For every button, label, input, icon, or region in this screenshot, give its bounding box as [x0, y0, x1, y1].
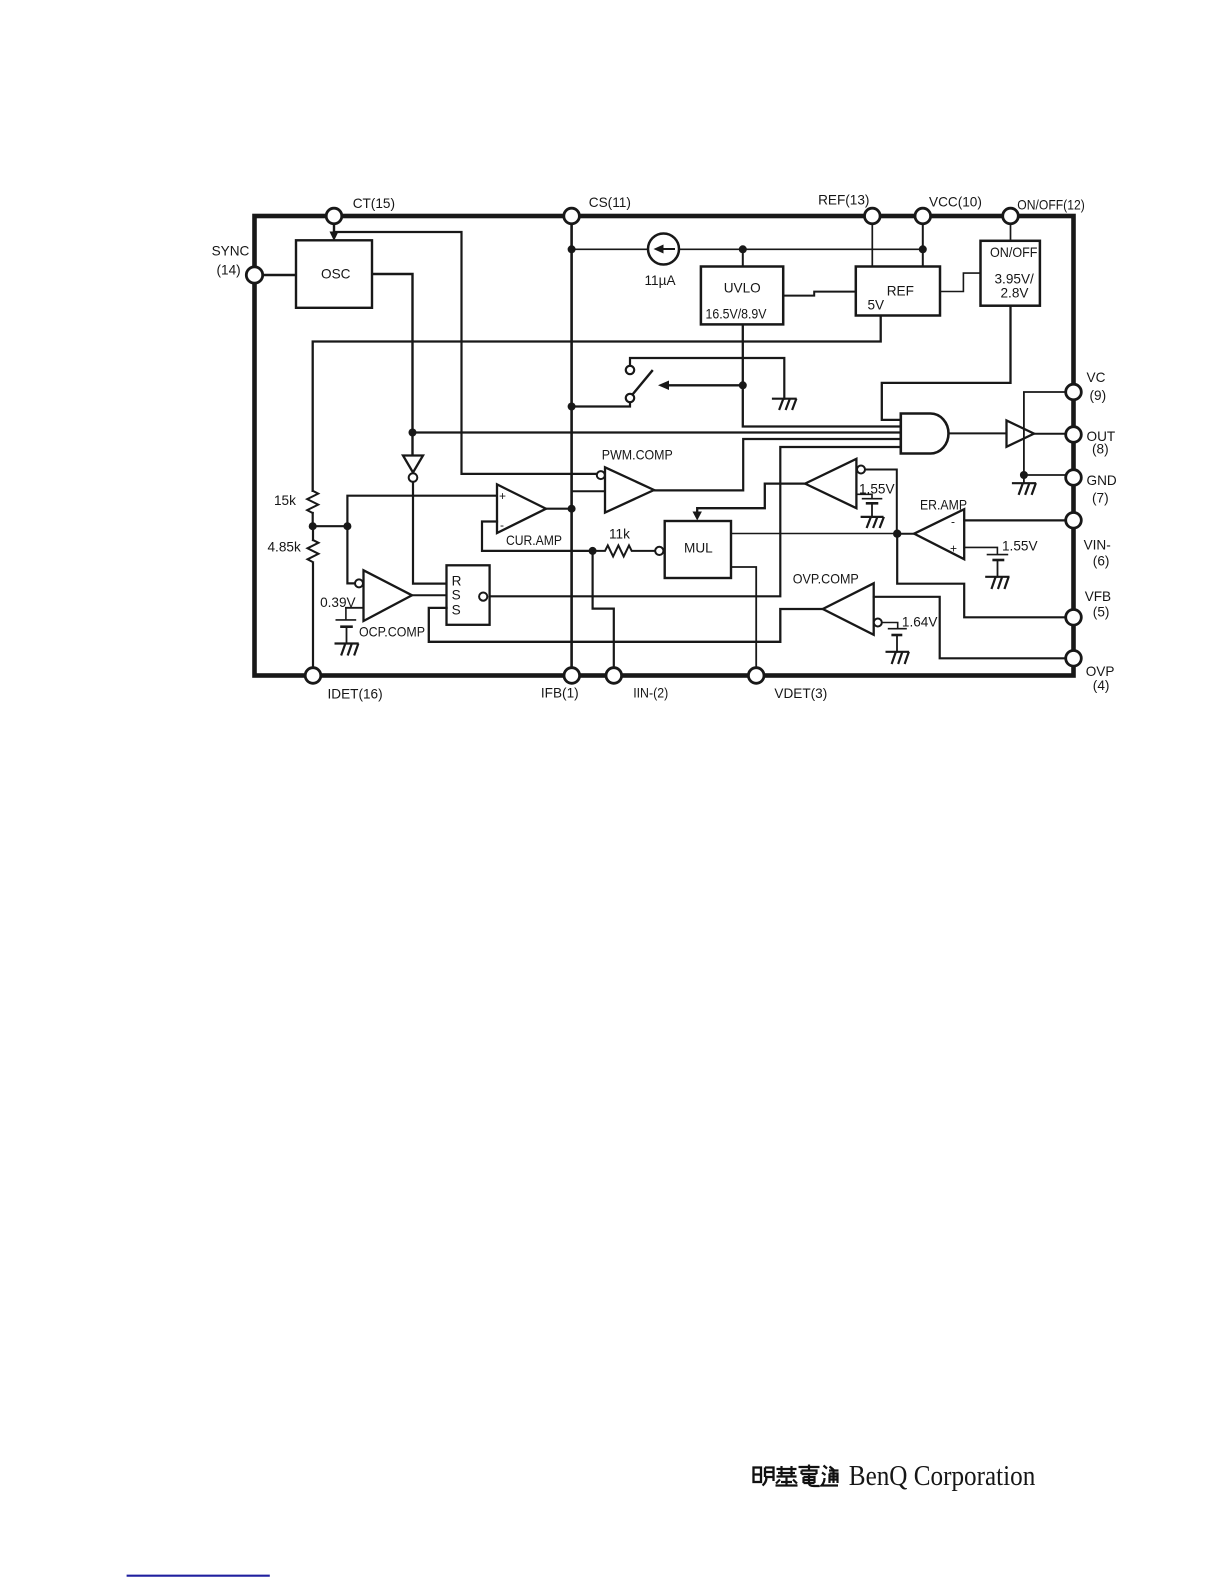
resistor 15k — [307, 491, 318, 513]
wire 1.55V comp inv input to ER node — [865, 470, 897, 534]
svg-text:VIN-: VIN- — [1084, 538, 1111, 553]
wire VC to driver — [1024, 392, 1066, 475]
svg-text:VFB: VFB — [1085, 589, 1111, 604]
svg-text:(4): (4) — [1093, 678, 1110, 693]
pin VCC(10) — [915, 208, 931, 224]
ground (1.64V) — [887, 652, 909, 663]
wire OSC clock to AND gate — [413, 431, 901, 433]
comparator OCP.COMP — [364, 570, 413, 621]
svg-text:+: + — [950, 542, 957, 556]
AND gate — [901, 414, 949, 454]
wire ER.AMP output node — [897, 533, 914, 535]
wire driver to OUT pin — [1034, 433, 1066, 435]
battery 0.39V — [336, 608, 355, 620]
svg-text:CUR.AMP: CUR.AMP — [506, 533, 562, 548]
pin OVP(4) — [1066, 651, 1082, 667]
svg-text:VDET(3): VDET(3) — [774, 686, 827, 701]
svg-text:+: + — [499, 489, 506, 503]
latch RSS — [447, 565, 490, 625]
svg-text:CS(11): CS(11) — [589, 195, 631, 210]
pin VDET(3) — [748, 668, 764, 684]
svg-text:(5): (5) — [1093, 605, 1110, 620]
wire 11k node to IIN- pin — [593, 551, 614, 668]
wire REF output to ON/OFF block — [940, 273, 981, 291]
svg-text:5V: 5V — [868, 298, 885, 313]
wire OSC output down — [372, 274, 413, 456]
CJK glyph 電 — [799, 1465, 820, 1487]
switch (CS discharge) — [630, 358, 784, 399]
amplifier ER.AMP — [914, 509, 964, 559]
current source 11uA — [648, 234, 679, 265]
wire CT ramp branch to PWM.COMP inverting input — [334, 232, 597, 474]
arrowhead into OSC — [330, 232, 339, 242]
wire SYNC pin to OSC left — [263, 274, 297, 276]
wire CUR.AMP output to CS line — [546, 508, 572, 510]
wire REF(13) riser — [871, 224, 873, 267]
svg-text:(8): (8) — [1092, 442, 1109, 457]
svg-text:1.55V: 1.55V — [859, 482, 895, 497]
pin VFB(5) — [1066, 610, 1082, 626]
svg-text:1.55V: 1.55V — [1002, 539, 1038, 554]
wire VCC riser to REF block — [922, 224, 924, 267]
node CS-11uA junction — [568, 245, 576, 253]
node OSC clock junction — [409, 429, 417, 437]
svg-text:SYNC: SYNC — [212, 244, 250, 259]
svg-text:GND: GND — [1087, 473, 1117, 488]
pin CS(11) — [564, 208, 580, 224]
wire 1.55V comp output to MUL top — [697, 484, 805, 514]
wire switch control arrow — [662, 384, 743, 386]
svg-text:11µA: 11µA — [645, 273, 677, 288]
svg-text:IIN-(2): IIN-(2) — [633, 686, 668, 701]
wire PWM.COMP output to AND gate — [654, 439, 901, 490]
node UVLO-VCC sense junction — [739, 245, 747, 253]
wire UVLO output to REF — [783, 292, 856, 296]
wire MUL to VDET pin — [731, 567, 756, 668]
pin VC(9) — [1066, 384, 1082, 400]
CJK glyph 通 — [822, 1466, 839, 1486]
wire ER.AMP + input to 1.55V ref — [964, 547, 1007, 554]
wire CT pin to OSC top — [333, 224, 335, 234]
battery 1.64V — [882, 623, 906, 629]
node VCC junction — [919, 245, 927, 253]
PINS — [246, 208, 1081, 683]
svg-text:1.64V: 1.64V — [902, 615, 938, 630]
inverter (clock) — [403, 456, 423, 473]
pin REF(13) — [865, 208, 881, 224]
svg-text:VCC(10): VCC(10) — [929, 195, 982, 210]
svg-text:BenQ Corporation: BenQ Corporation — [849, 1461, 1036, 1492]
blue footer rule — [127, 1575, 270, 1577]
svg-text:VC: VC — [1087, 370, 1106, 385]
ground (1.55V comp) — [862, 517, 884, 527]
wire OCP.COMP output to latch S — [412, 594, 447, 596]
pin VIN-(6) — [1066, 513, 1082, 529]
wire ER.AMP node to MUL right — [731, 533, 897, 535]
node MUL input bubble — [655, 547, 663, 555]
pin SYNC(14) — [246, 267, 262, 283]
pin IDET(16) — [305, 668, 321, 684]
svg-text:ON/OFF: ON/OFF — [990, 245, 1038, 260]
svg-text:IFB(1): IFB(1) — [541, 686, 579, 701]
node switch-CS junction — [568, 403, 576, 411]
LABELS — [212, 193, 1117, 702]
resistor 4.85k — [308, 540, 319, 562]
opamp +/- marks — [499, 489, 957, 556]
svg-text:REF(13): REF(13) — [818, 193, 869, 208]
svg-text:OVP.COMP: OVP.COMP — [793, 572, 859, 587]
multiplier MUL — [665, 521, 731, 578]
svg-text:16.5V/8.9V: 16.5V/8.9V — [706, 307, 767, 322]
wire 11uA line from CS to VCC riser — [572, 248, 923, 250]
svg-text:UVLO: UVLO — [724, 281, 761, 296]
wire ON/OFF output to AND gate — [882, 306, 1011, 420]
svg-text:S: S — [452, 603, 461, 618]
svg-text:ER.AMP: ER.AMP — [920, 498, 967, 513]
svg-text:PWM.COMP: PWM.COMP — [602, 448, 673, 463]
svg-text:CT(15): CT(15) — [353, 196, 395, 211]
svg-text:REF: REF — [887, 284, 914, 299]
svg-text:ON/OFF(12): ON/OFF(12) — [1017, 198, 1085, 213]
svg-text:S: S — [452, 588, 461, 603]
node UVLO switch-control junction — [739, 381, 747, 389]
svg-text:OSC: OSC — [321, 267, 351, 282]
svg-text:R: R — [452, 574, 462, 589]
svg-text:15k: 15k — [274, 493, 296, 508]
wire ON/OFF(12) riser — [1010, 224, 1012, 241]
pin OUT(8) — [1066, 427, 1082, 443]
svg-text:0.39V: 0.39V — [320, 595, 356, 610]
svg-text:4.85k: 4.85k — [268, 540, 301, 555]
svg-text:MUL: MUL — [684, 541, 713, 556]
ground (1.55V ER) — [986, 577, 1008, 588]
svg-text:(7): (7) — [1092, 491, 1109, 506]
svg-text:(14): (14) — [217, 263, 241, 278]
wire OVP.COMP output to latch S2 — [429, 608, 823, 642]
FOOTER — [754, 1461, 1036, 1492]
CJK glyph 明 — [754, 1468, 774, 1486]
wire divider node to OCP.COMP input — [347, 526, 355, 583]
amplifier CUR.AMP — [497, 484, 546, 533]
wire 4.85k to IDET pin — [312, 564, 314, 668]
pin ON/OFF(12) — [1003, 208, 1019, 224]
pin IIN-(2) — [606, 668, 622, 684]
wire AND output — [949, 432, 1007, 434]
pin IFB(1) — [564, 668, 580, 684]
svg-text:3.95V/: 3.95V/ — [995, 271, 1035, 286]
wire CUR.AMP feedback to 11k node — [482, 522, 593, 551]
resistor 11k — [593, 545, 655, 556]
outer IC border — [255, 216, 1074, 676]
block OSC — [296, 240, 372, 307]
wire inverter output to latch R input — [413, 482, 447, 584]
svg-text:OVP: OVP — [1086, 664, 1115, 679]
wire 0.39V battery to OCP.COMP lower input — [346, 607, 364, 609]
block REF — [856, 267, 940, 316]
svg-text:-: - — [500, 518, 504, 532]
wire divider node to CUR.AMP + — [347, 496, 497, 527]
svg-text:2.8V: 2.8V — [1001, 286, 1029, 301]
svg-text:(6): (6) — [1093, 554, 1110, 569]
comparator OVP.COMP — [823, 583, 874, 635]
block UVLO — [701, 267, 783, 325]
wire PWM.COMP lower input from CS line — [572, 490, 605, 492]
wire divider dots link — [313, 525, 348, 527]
svg-text:(9): (9) — [1090, 388, 1107, 403]
wire OVP pin to OVP.COMP input — [874, 597, 1066, 659]
comparator 1.55V (restart) — [805, 459, 856, 508]
pin CT(15) — [326, 208, 342, 224]
wire ER.AMP inv input to VIN- pin — [964, 519, 1066, 521]
wire CS vertical to IFB pin — [570, 224, 573, 668]
comparator PWM.COMP — [605, 467, 654, 512]
wire UVLO output down to AND gate — [743, 324, 901, 426]
wire latch Q to AND gate — [490, 447, 901, 596]
svg-text:11k: 11k — [609, 527, 630, 542]
CJK glyph 基 — [776, 1466, 798, 1486]
wire ER node to VFB pin — [897, 534, 1066, 618]
ground (switch top) — [773, 399, 796, 409]
svg-text:-: - — [951, 515, 955, 529]
ground (0.39V) — [336, 644, 358, 655]
ground (driver) — [1013, 483, 1036, 494]
svg-text:OCP.COMP: OCP.COMP — [359, 625, 425, 640]
battery 1.55V (comp) — [856, 494, 881, 498]
driver buffer — [1007, 421, 1035, 447]
wire REF 5V rail to divider — [313, 316, 881, 491]
svg-text:IDET(16): IDET(16) — [328, 687, 383, 702]
pin GND(7) — [1066, 470, 1082, 486]
wire UVLO top riser — [742, 249, 744, 266]
block ON/OFF — [981, 241, 1040, 306]
